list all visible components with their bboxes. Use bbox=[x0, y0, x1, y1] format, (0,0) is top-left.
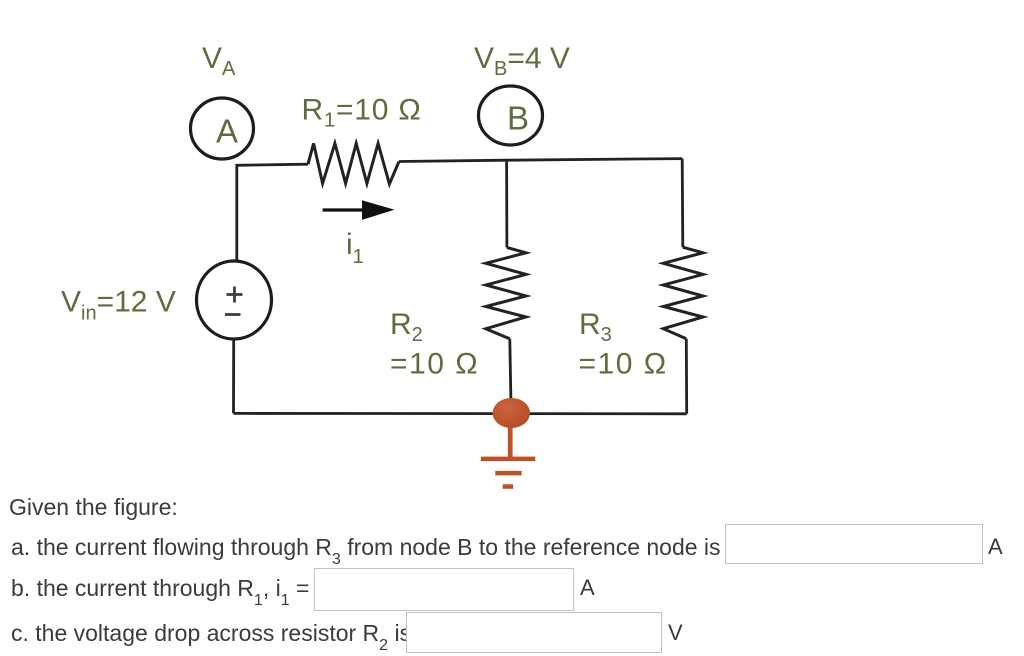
voltage source Vin bbox=[197, 261, 272, 339]
wire: source bottom down to bottom rail bbox=[232, 339, 235, 414]
node dot (reference node) bbox=[493, 398, 530, 428]
svg-text:VB=4 V: VB=4 V bbox=[474, 42, 570, 80]
wire: R3 bottom down to bottom rail bbox=[685, 339, 688, 414]
svg-text:=10 Ω: =10 Ω bbox=[390, 348, 479, 381]
resistor R2 bbox=[486, 248, 526, 339]
wire: node B down to R2 top bbox=[505, 160, 508, 247]
svg-text:R2: R2 bbox=[390, 308, 423, 346]
node A bbox=[191, 98, 254, 159]
svg-text:Vin=12 V: Vin=12 V bbox=[61, 286, 176, 325]
resistor R3 bbox=[663, 247, 703, 339]
wire: bottom rail bbox=[234, 412, 687, 415]
svg-text:i1: i1 bbox=[346, 228, 364, 268]
question text bbox=[9, 494, 178, 521]
current arrow i1 bbox=[323, 200, 395, 220]
ground bbox=[481, 426, 535, 489]
svg-text:=10 Ω: =10 Ω bbox=[579, 348, 668, 381]
wire: R1 right to node B to top-right corner bbox=[399, 159, 682, 162]
node B bbox=[479, 86, 543, 145]
svg-text:VA: VA bbox=[202, 42, 236, 80]
wire: top-right corner down to R3 top bbox=[681, 159, 684, 248]
svg-text:R3: R3 bbox=[579, 308, 612, 346]
wire: node A corner to R1 left bbox=[237, 164, 308, 262]
svg-text:A: A bbox=[216, 113, 238, 150]
wire: R2 bottom to reference node dot bbox=[510, 339, 511, 406]
resistor R1 bbox=[308, 143, 399, 184]
svg-text:R1=10 Ω: R1=10 Ω bbox=[302, 94, 422, 132]
svg-text:B: B bbox=[507, 100, 529, 137]
